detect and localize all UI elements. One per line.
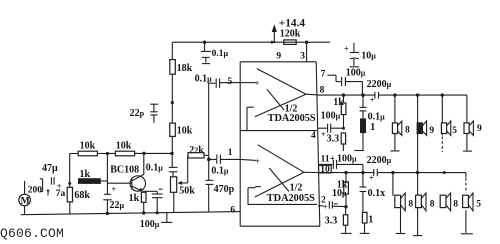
capacitor 2200u ch1	[367, 79, 467, 105]
wire base	[107, 182, 131, 184]
pin 11 / capacitor 100u bootstrap ch2	[318, 154, 363, 173]
svg-text:3.3: 3.3	[327, 134, 340, 145]
wire output bus ch1	[317, 93, 375, 97]
svg-text:10μ: 10μ	[332, 188, 347, 199]
resistor 10k (bias, left)	[78, 140, 97, 156]
RC snubber ch2: capacitor 0.1u + resistor 1	[360, 173, 386, 234]
svg-text:8: 8	[320, 85, 325, 95]
wire top supply rail	[172, 41, 330, 43]
pin 10 label (boxed)	[319, 165, 332, 175]
svg-text:68k: 68k	[74, 190, 90, 201]
resistor 10k (bias, right)	[115, 140, 134, 156]
resistor 22k	[188, 145, 209, 159]
svg-text:22k: 22k	[189, 145, 204, 156]
svg-text:5: 5	[476, 200, 481, 210]
svg-text:5: 5	[452, 126, 457, 136]
svg-text:0.1μ: 0.1μ	[212, 49, 229, 59]
resistor 10k collector load	[170, 123, 193, 153]
svg-text:120k: 120k	[280, 29, 301, 40]
svg-text:10k: 10k	[177, 125, 193, 136]
svg-text:+: +	[369, 173, 374, 183]
ground	[161, 213, 172, 223]
svg-text:7: 7	[321, 69, 326, 79]
capacitor 0.1u to pin 5	[195, 73, 241, 87]
RC snubber ch1: capacitor 0.1u + resistor 1	[354, 95, 385, 150]
potentiometer 50k	[171, 155, 196, 212]
svg-text:470p: 470p	[214, 184, 235, 195]
svg-text:0.1μ: 0.1μ	[146, 163, 164, 174]
wire speaker column 1 top	[394, 95, 396, 150]
capacitor 2200u ch2	[367, 155, 466, 183]
resistor 68k bias	[67, 154, 90, 214]
svg-text:+: +	[344, 43, 349, 53]
svg-text:8: 8	[453, 200, 458, 210]
speaker LS5 (8 ohm)	[395, 193, 414, 211]
capacitor 10u feedback ch2 / pin 2	[318, 188, 348, 211]
resistor 1k feedback ch1	[333, 95, 346, 128]
svg-text:0.1μ: 0.1μ	[195, 73, 213, 84]
svg-text:3: 3	[300, 51, 305, 61]
svg-text:100μ: 100μ	[140, 219, 160, 230]
resistor 1k emitter	[129, 191, 146, 215]
capacitor 10u supply filter	[344, 43, 376, 67]
svg-text:18k: 18k	[177, 63, 193, 74]
speaker LS1 (8 ohm)	[392, 121, 410, 135]
resistor 18k	[170, 42, 193, 123]
svg-text:8: 8	[408, 200, 413, 210]
transistor Q1 BC108	[110, 165, 145, 192]
microphone M	[19, 181, 43, 214]
pin 7 / capacitor 100u bootstrap ch1	[321, 67, 366, 95]
svg-text:+14.4: +14.4	[279, 17, 306, 29]
svg-text:M: M	[21, 197, 30, 207]
svg-text:10k: 10k	[80, 140, 96, 151]
svg-text:22p: 22p	[130, 108, 145, 119]
svg-text:10: 10	[320, 165, 330, 175]
capacitor 0.1u to pin 1	[207, 148, 240, 176]
wire speaker column 4 bottom	[465, 173, 467, 178]
wire speaker column 3	[441, 95, 443, 135]
svg-text:10μ: 10μ	[361, 51, 376, 62]
wire ground bus (left section)	[21, 212, 240, 215]
capacitor 470p	[206, 180, 235, 212]
svg-text:47μ: 47μ	[42, 163, 58, 174]
wire speaker column 1 bottom	[392, 173, 394, 196]
resistor 1k series (preamp input)	[79, 169, 108, 183]
node base line / capacitor 22u	[103, 154, 124, 216]
svg-text:100μ: 100μ	[337, 154, 357, 165]
resistor 120k	[280, 29, 301, 45]
svg-text:1: 1	[370, 122, 375, 133]
svg-text:2200μ: 2200μ	[367, 155, 392, 166]
capacitor 100u feedback ch1 / pin 4	[311, 110, 345, 141]
svg-text:BC108: BC108	[110, 165, 139, 176]
capacitor 22p	[130, 104, 159, 123]
svg-text:50k: 50k	[179, 186, 195, 197]
svg-text:7a: 7a	[56, 189, 66, 199]
capacitor C 47u input coupling	[40, 163, 66, 199]
speaker LS8 (8 ohm)	[463, 193, 482, 211]
svg-text:TDA2005S: TDA2005S	[268, 113, 316, 124]
wire output bus ch2	[317, 171, 375, 174]
svg-text:10k: 10k	[116, 140, 132, 151]
svg-text:+: +	[255, 156, 260, 166]
IC U1 box	[240, 62, 320, 226]
capacitor 0.1u supply bypass	[201, 41, 229, 64]
svg-text:200: 200	[28, 186, 43, 196]
speaker LS6 (8 ohm)	[416, 193, 435, 211]
svg-text:11+: 11+	[321, 154, 335, 164]
resistor 3.3 feedback ch2	[325, 207, 352, 234]
svg-text:+: +	[321, 129, 326, 139]
svg-text:4: 4	[311, 131, 316, 141]
supply +14.4 arrow	[271, 17, 305, 43]
svg-text:0.1μ: 0.1μ	[211, 166, 229, 177]
svg-text:TDA2005S: TDA2005S	[267, 193, 315, 204]
svg-text:1: 1	[368, 215, 373, 226]
speaker LS4 (8 ohm)	[464, 121, 482, 135]
wire speaker column 4 top	[466, 95, 468, 150]
svg-text:6: 6	[230, 205, 235, 215]
svg-text:8: 8	[405, 125, 410, 135]
svg-text:1k: 1k	[129, 193, 140, 204]
svg-text:1: 1	[228, 148, 233, 158]
svg-text:0.1x: 0.1x	[368, 188, 386, 199]
node junction line pin5/470p	[208, 83, 210, 155]
svg-text:100μ: 100μ	[321, 110, 341, 121]
wire 10k bias chain	[70, 152, 174, 155]
capacitor 100u emitter bypass	[140, 189, 163, 230]
svg-text:9: 9	[429, 126, 434, 136]
svg-text:22μ: 22μ	[110, 200, 125, 211]
svg-text:9: 9	[477, 124, 482, 134]
svg-text:2200μ: 2200μ	[367, 79, 392, 90]
speaker LS3 (8 ohm)	[441, 121, 457, 136]
svg-text:3.3: 3.3	[325, 216, 338, 227]
svg-text:100μ: 100μ	[346, 67, 366, 78]
svg-text:5: 5	[227, 77, 232, 87]
wire speaker column 2 (full)	[417, 95, 419, 235]
svg-text:+: +	[370, 95, 375, 105]
svg-text:0.1μ: 0.1μ	[368, 111, 386, 122]
svg-text:Q606.COM: Q606.COM	[0, 226, 64, 241]
speaker LS7 (8 ohm)	[440, 193, 458, 211]
node pin 3	[300, 41, 308, 62]
op-amp U1a (1/2 TDA2005S)	[240, 69, 316, 131]
svg-text:+: +	[111, 184, 116, 194]
svg-text:9: 9	[276, 52, 281, 62]
speaker LS2 (8 ohm)	[417, 121, 434, 136]
resistor 1k feedback ch2	[337, 173, 349, 207]
op-amp U1b (1/2 TDA2005S)	[240, 145, 317, 205]
svg-text:+: +	[255, 78, 260, 88]
wire collector	[143, 153, 145, 174]
resistor 3.3 feedback ch1	[327, 133, 346, 151]
svg-text:8: 8	[430, 200, 435, 210]
capacitor 0.1u collector coupling	[146, 153, 178, 173]
svg-text:+: +	[323, 201, 328, 211]
svg-text:1k: 1k	[333, 97, 344, 108]
